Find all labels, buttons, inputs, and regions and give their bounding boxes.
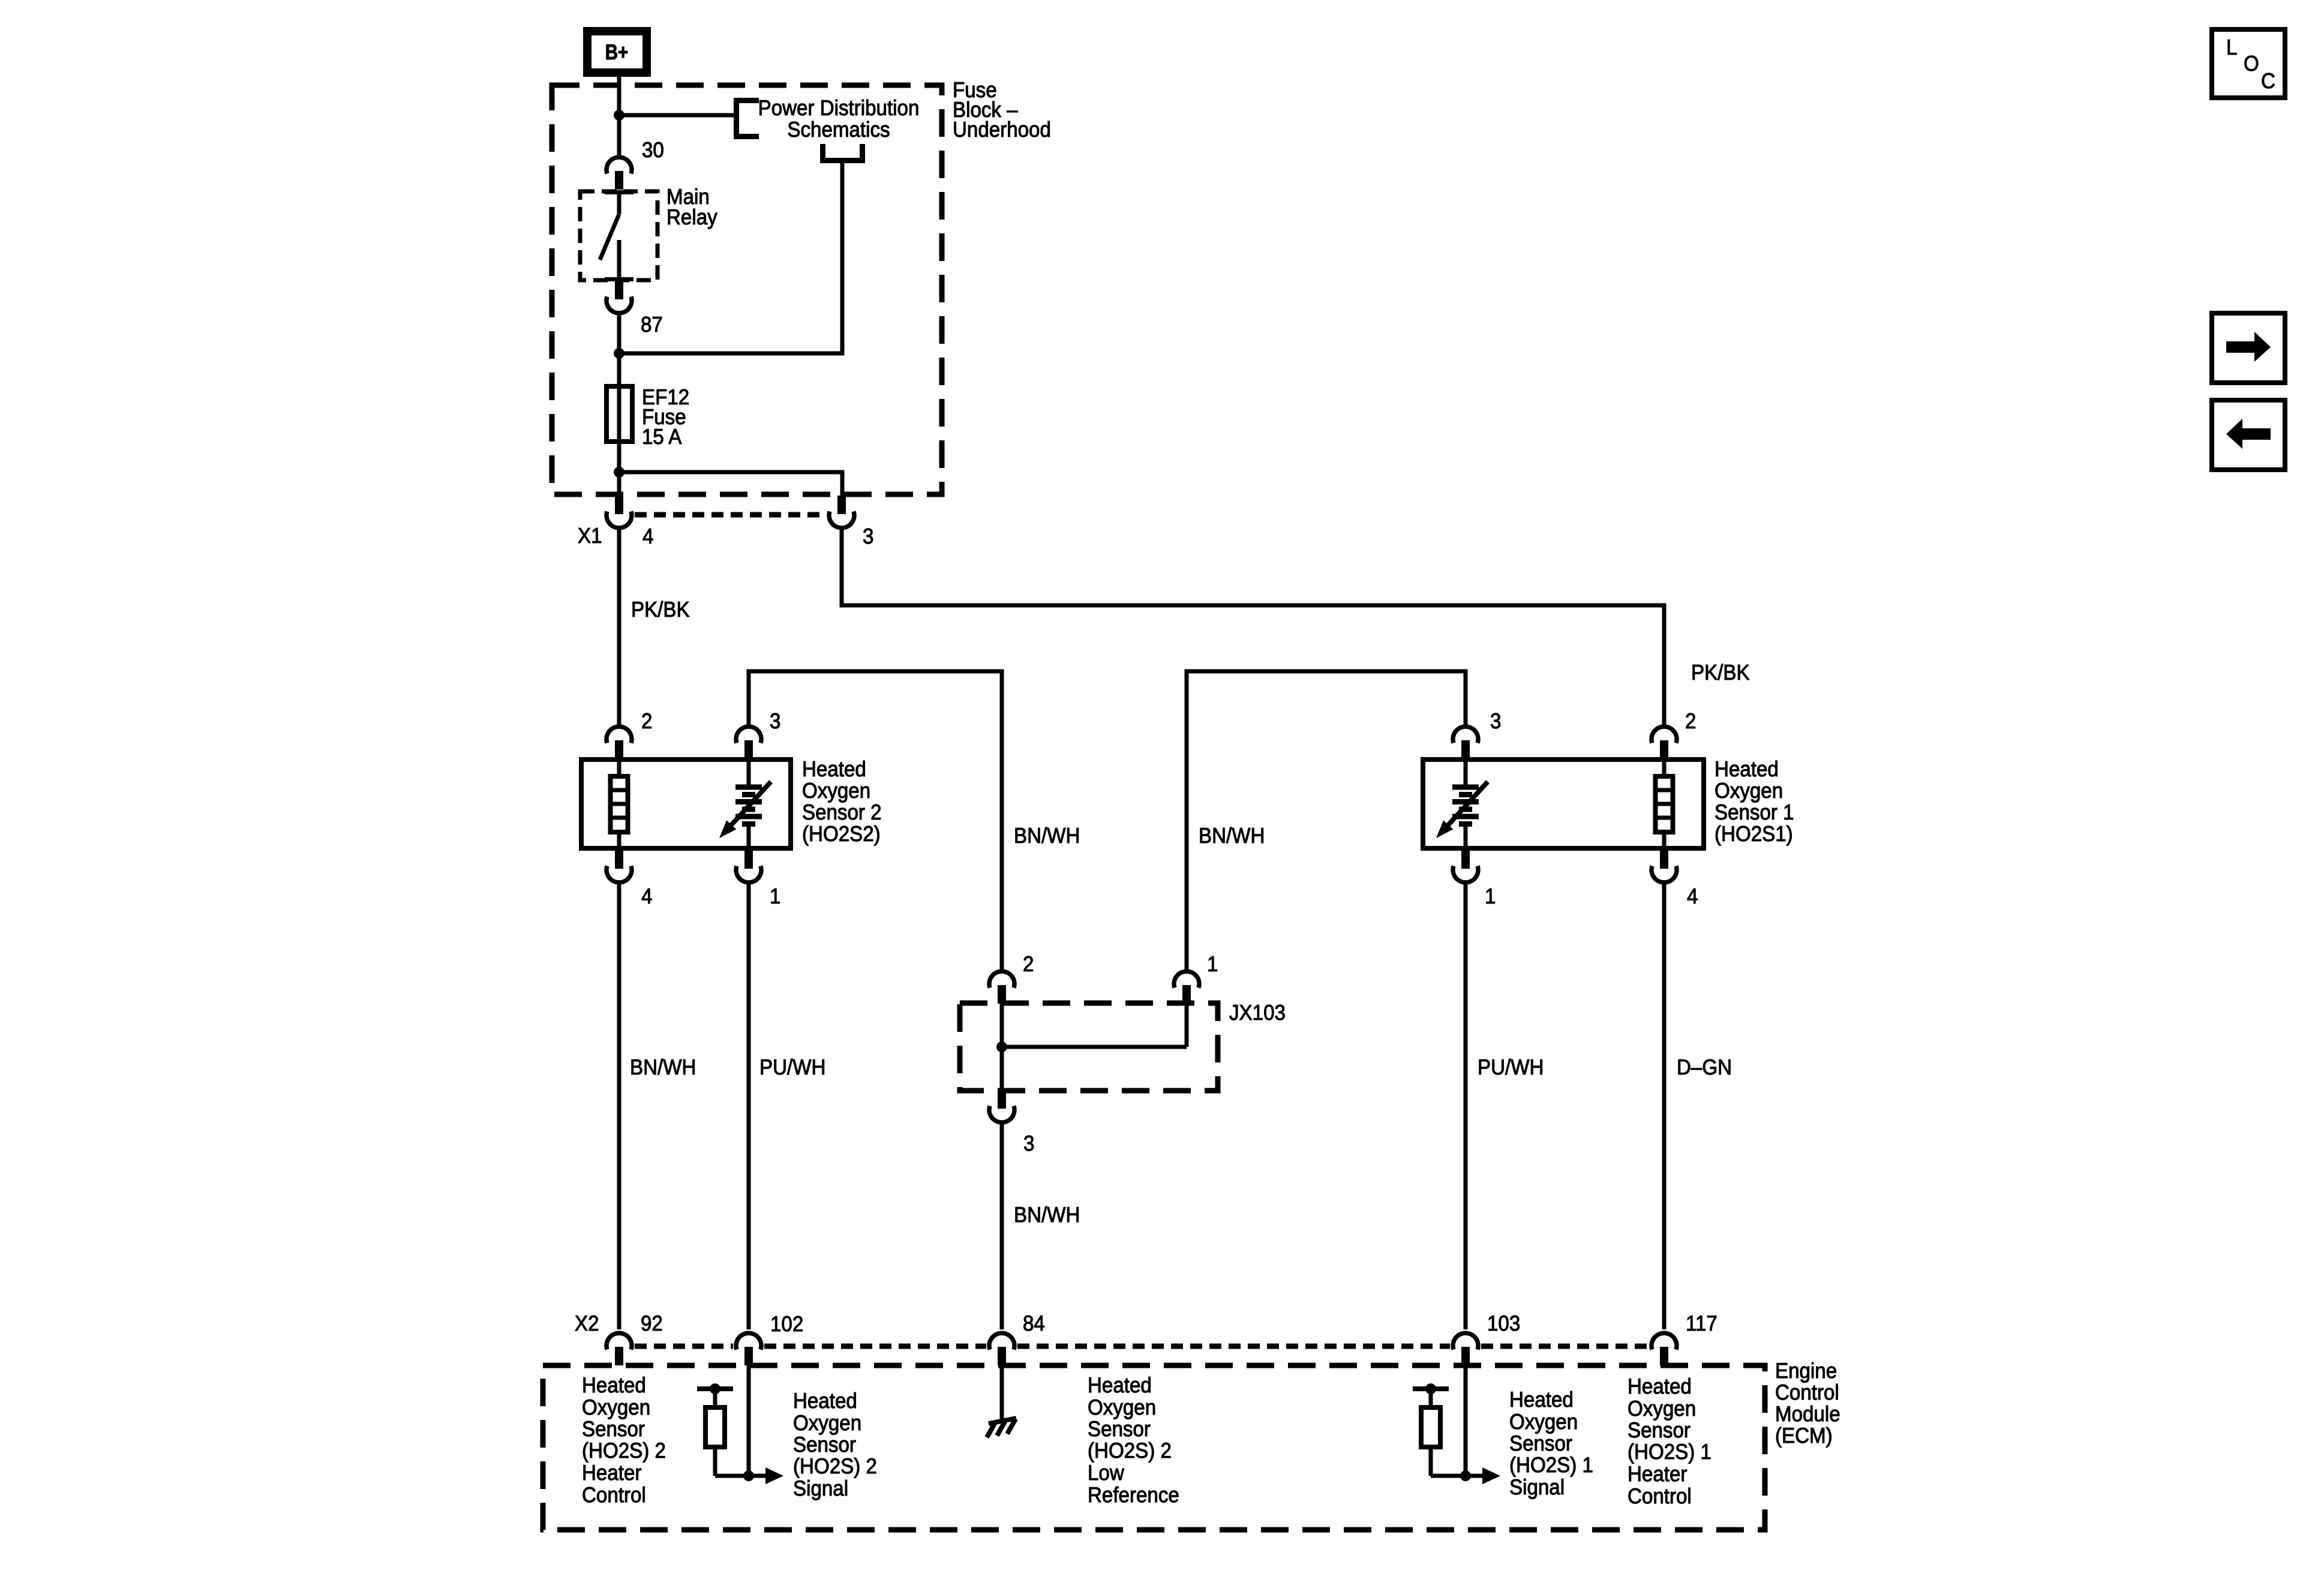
svg-text:Control: Control xyxy=(582,1482,646,1507)
wire PU/WH HO2S2-1 to ECM 102 xyxy=(747,881,751,1329)
HO2S2 pin 4 connector xyxy=(606,850,632,882)
svg-text:Oxygen: Oxygen xyxy=(1715,778,1783,803)
ECM pin 102 connector xyxy=(736,1333,761,1365)
svg-text:Engine: Engine xyxy=(1775,1358,1837,1383)
JX103 junction dot xyxy=(996,1041,1007,1052)
HO2S2 pin 2 connector xyxy=(606,727,632,759)
ECM HO2S1 signal internal circuit xyxy=(1413,1363,1500,1484)
wire BN/WH JX103 pin 1 to HO2S1 pin 3 xyxy=(1187,671,1466,971)
HO2S2 sensor cell xyxy=(719,760,771,848)
reference bracket to Power Distribution Schematics xyxy=(737,101,759,137)
JX103 pin 2 connector xyxy=(989,971,1014,1004)
svg-text:(HO2S) 2: (HO2S) 2 xyxy=(793,1454,877,1478)
label HO2S2 signal xyxy=(793,1388,877,1500)
svg-text:Sensor: Sensor xyxy=(1088,1416,1151,1441)
HO2S1 heater element xyxy=(1656,760,1673,848)
HO2S1 pin 1 connector xyxy=(1453,850,1478,882)
svg-text:BN/WH: BN/WH xyxy=(1199,823,1265,848)
svg-text:X1: X1 xyxy=(578,523,602,548)
wire to schematics reference 2 xyxy=(619,161,842,353)
svg-text:3: 3 xyxy=(1023,1131,1034,1155)
label Heated Oxygen Sensor 2 (HO2S2) xyxy=(802,757,882,846)
svg-text:Control: Control xyxy=(1775,1380,1839,1404)
svg-text:102: 102 xyxy=(770,1311,803,1336)
svg-text:92: 92 xyxy=(641,1311,663,1335)
svg-text:Heater: Heater xyxy=(1628,1461,1687,1486)
svg-text:X2: X2 xyxy=(575,1311,599,1335)
HO2S2 heater element xyxy=(611,760,628,848)
svg-text:B+: B+ xyxy=(605,40,629,64)
relay pin 30 connector xyxy=(606,157,632,190)
wire D-GN HO2S1-4 to ECM 117 xyxy=(1662,881,1667,1329)
svg-text:D–GN: D–GN xyxy=(1677,1055,1732,1079)
label HO2S2 heater control xyxy=(582,1373,666,1507)
wire PK/BK X1-4 to HO2S2 pin 2 xyxy=(617,527,621,726)
svg-text:Module: Module xyxy=(1775,1401,1840,1426)
svg-text:Sensor: Sensor xyxy=(793,1432,856,1457)
connector X1 pin 4 xyxy=(606,496,632,528)
svg-text:30: 30 xyxy=(642,137,664,162)
svg-text:Sensor 2: Sensor 2 xyxy=(802,800,882,824)
label Heated Oxygen Sensor 1 (HO2S1) xyxy=(1715,757,1794,846)
svg-text:Oxygen: Oxygen xyxy=(1628,1396,1696,1421)
svg-text:Low: Low xyxy=(1088,1460,1125,1485)
wire fuse output to X1 pin 3 xyxy=(619,472,842,497)
label EF12 Fuse 15 A xyxy=(642,385,689,449)
label HO2S2 low reference xyxy=(1088,1373,1179,1507)
svg-text:87: 87 xyxy=(641,312,663,337)
svg-text:Heated: Heated xyxy=(1509,1387,1574,1412)
main relay switch xyxy=(600,192,633,280)
svg-text:1: 1 xyxy=(1485,884,1496,908)
svg-text:117: 117 xyxy=(1686,1311,1718,1335)
ECM HO2S2 signal internal circuit xyxy=(697,1363,783,1484)
svg-text:Heated: Heated xyxy=(1715,757,1779,781)
svg-text:PU/WH: PU/WH xyxy=(759,1055,825,1079)
svg-text:2: 2 xyxy=(1685,709,1696,733)
svg-text:Heated: Heated xyxy=(802,757,866,781)
svg-text:(HO2S) 2: (HO2S) 2 xyxy=(582,1438,666,1463)
svg-text:2: 2 xyxy=(641,709,652,733)
svg-text:1: 1 xyxy=(1207,951,1218,976)
junction dot 87 output xyxy=(614,348,624,359)
wire BN/WH JX103-3 to ECM 84 xyxy=(1000,1121,1004,1329)
svg-text:(ECM): (ECM) xyxy=(1775,1423,1833,1448)
HO2S1 pin 4 connector xyxy=(1652,850,1677,882)
svg-text:1: 1 xyxy=(770,884,780,908)
junction dot B+ branch xyxy=(614,110,624,121)
svg-text:Control: Control xyxy=(1628,1484,1692,1508)
svg-text:Heated: Heated xyxy=(793,1388,857,1413)
forward arrow box xyxy=(2212,313,2285,383)
svg-text:C: C xyxy=(2261,68,2275,93)
label HO2S1 heater control xyxy=(1628,1374,1712,1508)
svg-text:Heated: Heated xyxy=(1088,1373,1152,1397)
svg-text:3: 3 xyxy=(770,709,780,733)
battery feed B+ xyxy=(587,31,647,73)
svg-text:Oxygen: Oxygen xyxy=(1509,1409,1578,1434)
svg-text:(HO2S1): (HO2S1) xyxy=(1715,821,1793,846)
HO2S1 box xyxy=(1423,760,1704,848)
svg-text:Sensor 1: Sensor 1 xyxy=(1715,800,1794,824)
svg-text:Oxygen: Oxygen xyxy=(582,1395,650,1419)
svg-text:(HO2S) 1: (HO2S) 1 xyxy=(1509,1452,1593,1477)
back arrow box xyxy=(2212,400,2285,470)
svg-text:Relay: Relay xyxy=(666,205,717,229)
wire BN/WH HO2S2-3 to JX103 pin 2 xyxy=(749,671,1002,971)
ECM pin 84 connector xyxy=(989,1333,1014,1365)
wire 87 to X1 pin 4 xyxy=(617,313,621,497)
svg-text:PK/BK: PK/BK xyxy=(1691,660,1750,685)
connector X1 pin 3 xyxy=(829,496,854,528)
svg-text:(HO2S) 1: (HO2S) 1 xyxy=(1628,1439,1712,1464)
svg-text:Oxygen: Oxygen xyxy=(1088,1395,1156,1419)
svg-text:Sensor: Sensor xyxy=(1628,1418,1691,1442)
svg-text:4: 4 xyxy=(641,884,652,908)
X2 harness dotted line xyxy=(635,1344,1649,1349)
junction dot fuse output xyxy=(614,467,624,478)
svg-text:Heated: Heated xyxy=(1628,1374,1692,1398)
relay pin 87 connector xyxy=(606,281,632,313)
X1 harness dotted line xyxy=(635,512,826,518)
svg-text:4: 4 xyxy=(642,524,653,548)
svg-text:Signal: Signal xyxy=(793,1476,848,1500)
svg-text:Sensor: Sensor xyxy=(582,1416,645,1441)
svg-text:Underhood: Underhood xyxy=(953,117,1051,142)
wire to power distribution reference xyxy=(619,113,734,118)
svg-text:(HO2S2): (HO2S2) xyxy=(802,821,881,846)
ECM low reference ground xyxy=(987,1363,1016,1437)
svg-text:2: 2 xyxy=(1023,951,1034,976)
label Power Distribution Schematics xyxy=(758,95,920,142)
svg-text:(HO2S) 2: (HO2S) 2 xyxy=(1088,1438,1172,1463)
svg-text:PU/WH: PU/WH xyxy=(1478,1055,1544,1079)
wire PU/WH HO2S1-1 to ECM 103 xyxy=(1464,881,1468,1329)
JX103 dashed box xyxy=(960,1003,1218,1091)
JX103 pin 1 connector xyxy=(1174,971,1199,1004)
svg-text:L: L xyxy=(2226,35,2237,59)
svg-text:103: 103 xyxy=(1487,1311,1520,1335)
HO2S2 box xyxy=(581,760,791,848)
wire B+ down to relay pin 30 xyxy=(617,77,621,157)
svg-text:4: 4 xyxy=(1687,884,1698,908)
label Engine Control Module ECM xyxy=(1775,1358,1840,1448)
ECM pin 117 connector xyxy=(1652,1333,1677,1365)
svg-text:Heater: Heater xyxy=(582,1460,641,1485)
wire PK/BK X1-3 to HO2S1 pin 2 xyxy=(842,527,1664,726)
label Main Relay xyxy=(666,184,717,229)
JX103 internal wires xyxy=(1002,1003,1187,1091)
svg-text:Heated: Heated xyxy=(582,1373,646,1397)
fuse block underhood dashed box xyxy=(552,85,942,494)
HO2S1 sensor cell xyxy=(1436,760,1488,848)
svg-text:Signal: Signal xyxy=(1509,1475,1565,1499)
main relay dashed box xyxy=(580,191,657,280)
svg-text:3: 3 xyxy=(863,524,873,548)
svg-text:Sensor: Sensor xyxy=(1509,1431,1572,1455)
ECM dashed box xyxy=(543,1365,1765,1530)
wire BN/WH HO2S2-4 to ECM 92 xyxy=(617,881,621,1329)
svg-text:PK/BK: PK/BK xyxy=(631,597,690,622)
svg-text:BN/WH: BN/WH xyxy=(1014,823,1080,848)
svg-text:15 A: 15 A xyxy=(642,424,681,449)
svg-text:Oxygen: Oxygen xyxy=(793,1410,861,1435)
JX103 pin 3 connector xyxy=(989,1090,1014,1122)
svg-text:BN/WH: BN/WH xyxy=(1014,1202,1080,1227)
svg-text:Oxygen: Oxygen xyxy=(802,778,870,803)
HO2S1 pin 3 connector xyxy=(1453,727,1478,759)
svg-text:Reference: Reference xyxy=(1088,1482,1179,1507)
svg-text:Power Distribution: Power Distribution xyxy=(758,95,920,120)
LOC legend box xyxy=(2212,29,2285,98)
fuse EF12 xyxy=(606,386,632,442)
svg-text:84: 84 xyxy=(1023,1311,1045,1335)
label HO2S1 signal xyxy=(1509,1387,1593,1499)
ECM pin 103 connector xyxy=(1453,1333,1478,1365)
HO2S2 pin 1 connector xyxy=(736,850,761,882)
svg-text:BN/WH: BN/WH xyxy=(630,1055,696,1079)
svg-text:3: 3 xyxy=(1490,709,1501,733)
ECM pin 92 connector xyxy=(606,1333,632,1365)
reference bracket 2 under Schematics xyxy=(823,144,863,161)
svg-text:JX103: JX103 xyxy=(1229,1000,1286,1025)
HO2S1 pin 2 connector xyxy=(1652,727,1677,759)
label Fuse Block Underhood xyxy=(953,77,1051,142)
svg-text:Schematics: Schematics xyxy=(787,117,890,142)
HO2S2 pin 3 connector xyxy=(736,727,761,759)
svg-text:O: O xyxy=(2244,51,2259,76)
